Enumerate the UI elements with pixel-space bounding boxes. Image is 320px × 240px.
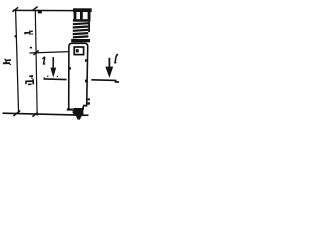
specks near left arrow tip: [47, 76, 48, 77]
spring coil 5: [73, 35, 89, 38]
label 1 at left arrow: [42, 57, 45, 64]
right edge bump 1: [88, 98, 90, 100]
plunger tip block: [73, 108, 83, 116]
spring coil 4: [73, 32, 89, 35]
plunger cone tip: [76, 116, 82, 120]
knurl bar 2: [80, 12, 83, 19]
body outline (rounded top, open bottom): [69, 43, 88, 109]
speck right of h label: [30, 47, 32, 49]
top extension line: [13, 9, 74, 11]
left surface line (lower level, left): [44, 78, 67, 81]
body bottom left step drop: [73, 111, 75, 114]
tick mid of h line: [33, 50, 38, 55]
left surface line end hook: [43, 77, 45, 79]
spring seat bar: [71, 39, 90, 42]
right edge bump 2: [88, 102, 90, 105]
right arrowhead: [105, 67, 113, 78]
label 1 at right arrow: [114, 54, 118, 63]
tick bottom of H line: [13, 111, 20, 116]
left arrow shaft: [52, 57, 54, 71]
body bottom right step: [83, 105, 87, 107]
knurl bar 3: [88, 12, 91, 19]
body bottom left step: [67, 109, 73, 111]
right surface line (lower level, right): [91, 80, 119, 82]
knurl bar 1: [74, 12, 77, 19]
knurl bottom rail: [73, 19, 91, 22]
spring coil 2: [73, 25, 89, 28]
label H (rotated): [3, 59, 11, 65]
dimension line h / h1 (vertical): [35, 10, 37, 115]
plunger inner right edge: [82, 106, 84, 109]
tick bottom of h1 line: [32, 112, 37, 116]
baseline (bottom surface): [3, 113, 89, 115]
inner nub left: [69, 67, 71, 69]
inner nub right upper: [85, 59, 87, 62]
left arrowhead: [50, 68, 56, 78]
mid surface line (upper level, left): [30, 52, 70, 53]
spring coil 1: [73, 22, 89, 25]
label h1 (rotated, subscript above): [25, 76, 33, 85]
ink blob on top line: [38, 11, 42, 13]
label h (rotated): [24, 31, 33, 35]
clamp hole inner square: [76, 49, 79, 52]
stem right of spring: [88, 22, 90, 32]
tick top of h line: [32, 7, 38, 11]
tick top of H line: [12, 7, 18, 12]
nub on H line: [15, 35, 16, 37]
inner nub right lower: [85, 80, 87, 83]
knob cap: [73, 8, 92, 12]
clamp square hole outer: [74, 47, 83, 55]
right arrow shaft: [108, 58, 110, 70]
dimension line H (vertical): [16, 10, 19, 114]
spring coil 3: [73, 29, 89, 32]
